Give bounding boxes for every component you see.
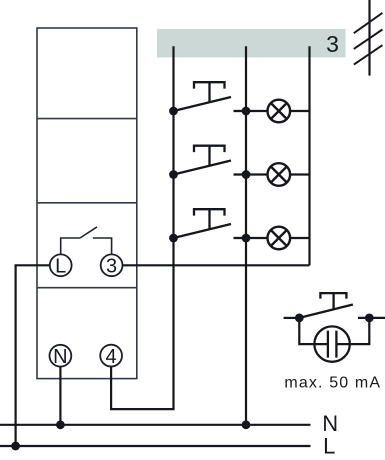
junction S3 left	[169, 234, 178, 243]
wire: S4 glow lamp left drop	[299, 318, 314, 344]
junction S3 right	[242, 234, 251, 243]
ceiling hatch wall line	[368, 0, 370, 76]
junction S1 left	[169, 107, 178, 116]
svg-text:max. 50 mA: max. 50 mA	[284, 374, 381, 391]
junction L line	[11, 442, 20, 451]
L supply line	[0, 445, 311, 447]
junction middle column on N line	[242, 420, 251, 429]
device section divider 2	[37, 202, 137, 204]
wire: lamp E2 connections	[246, 173, 310, 175]
lamp E1	[268, 100, 291, 123]
push button S3	[174, 209, 247, 238]
push button S1	[174, 82, 247, 111]
junction S1 right	[242, 107, 251, 116]
junction S4 left	[295, 314, 304, 323]
svg-text:3: 3	[106, 256, 117, 278]
terminal 3	[101, 254, 123, 276]
ceiling hatch stroke 1	[354, 13, 383, 33]
terminal 4	[100, 345, 122, 367]
wire: S4 glow lamp right drop	[350, 318, 370, 344]
lamp E3	[268, 227, 291, 250]
internal relay contact of timer	[61, 227, 112, 255]
svg-text:N: N	[53, 346, 67, 368]
wire: lamp E3 connections	[246, 237, 310, 239]
lamp E2	[268, 163, 291, 186]
junction S2 right	[242, 170, 251, 179]
svg-text:L: L	[323, 433, 335, 458]
push button S2	[174, 146, 247, 175]
wire: terminal 3 output	[123, 264, 310, 266]
svg-text:4: 4	[106, 346, 117, 368]
junction S4 right	[365, 314, 374, 323]
wiring duct bar (net 3)	[157, 29, 346, 57]
ceiling hatch stroke 2	[354, 30, 383, 49]
junction N line	[56, 420, 65, 429]
device section divider 3	[37, 287, 137, 289]
terminal N	[50, 345, 72, 367]
timer device outline	[37, 28, 137, 379]
device section divider 1	[37, 118, 137, 120]
wire: left column from duct to terminal 4	[111, 46, 173, 409]
wire: terminal L to L line	[16, 265, 50, 446]
svg-text:3: 3	[326, 31, 339, 57]
N supply line	[0, 424, 311, 426]
wire: lamp E1 connections	[246, 110, 310, 112]
wire: right column from duct to net 3	[308, 46, 310, 265]
illuminated push button S4	[284, 293, 385, 318]
terminal L	[50, 254, 72, 276]
wire: middle column from duct to N line	[245, 46, 247, 425]
wire: terminal N to N line	[59, 367, 61, 425]
junction S2 left	[169, 170, 178, 179]
svg-text:L: L	[55, 256, 66, 278]
ceiling hatch stroke 3	[354, 45, 383, 64]
glow lamp in S4	[314, 326, 349, 361]
